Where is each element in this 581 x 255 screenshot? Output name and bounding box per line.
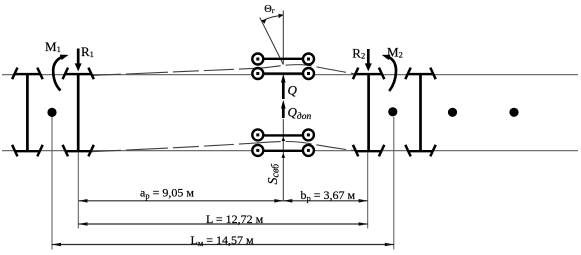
svg-text:L = 12,72 м: L = 12,72 м bbox=[206, 212, 264, 226]
svg-text:Q: Q bbox=[288, 83, 298, 98]
